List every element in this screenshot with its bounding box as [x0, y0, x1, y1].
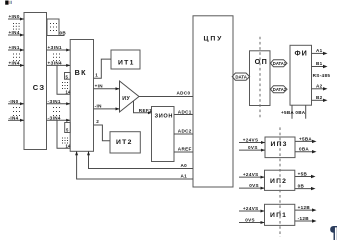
svg-text:-12В: -12В [298, 216, 310, 221]
wire A2 output [312, 83, 328, 90]
wire -IN4 input [8, 115, 24, 122]
wire -IN0 input [8, 99, 24, 106]
wire +ZIN1 [47, 45, 71, 52]
wire +5VA output IP3 [295, 136, 317, 143]
svg-text:0В: 0В [298, 184, 305, 189]
svg-text:A0: A0 [181, 163, 188, 168]
svg-text:+ЗIN1: +ЗIN1 [48, 45, 63, 50]
bus DATA1 OP-FI [271, 60, 288, 67]
dots group 2 [13, 54, 20, 62]
svg-text:+IN0: +IN0 [9, 14, 20, 19]
svg-text:+5ВА: +5ВА [299, 136, 312, 141]
svg-text:СЗ: СЗ [33, 83, 45, 92]
svg-text:DATA2: DATA2 [273, 87, 287, 92]
block ZION (voltage reference) [152, 107, 175, 162]
block IP1 (power supply 1) [265, 204, 295, 225]
block CPU (processor) [193, 16, 233, 187]
svg-text:2: 2 [96, 119, 99, 124]
block C3 (input protection) [24, 13, 47, 150]
wire -ZIN1 [47, 99, 71, 106]
svg-text:ИТ2: ИТ2 [116, 139, 133, 146]
wire AREF [174, 146, 193, 152]
svg-text:A1: A1 [181, 173, 188, 178]
svg-text:REF1: REF1 [139, 108, 152, 113]
svg-text:0В: 0В [60, 31, 67, 36]
wire B1 output [312, 61, 328, 68]
svg-text:ОП: ОП [255, 57, 269, 66]
wire ADC1 [174, 109, 193, 114]
page anchor mark top-left [5, 1, 12, 5]
dots group 1 [13, 23, 20, 30]
svg-text:DATA: DATA [235, 75, 247, 80]
svg-text:0VS: 0VS [245, 217, 255, 222]
svg-text:0ВА: 0ВА [299, 147, 309, 152]
wire ADC0 from amplifier to CPU [139, 90, 193, 96]
wire 0VS input IP1 [239, 217, 265, 224]
bus DATA CPU-OP [232, 73, 249, 80]
label bundle 2 end [66, 144, 71, 149]
svg-text:0VS: 0VS [249, 183, 259, 188]
wire A0 from BK to CPU [87, 151, 193, 168]
op-amp IU (instrumentation amplifier triangle) [120, 81, 140, 112]
svg-text:+24VS: +24VS [243, 138, 259, 143]
wire bundle 1 tail [57, 65, 70, 94]
wire +IN to amplifier [94, 83, 120, 90]
wire ADC2 [174, 128, 193, 134]
node 0V bundle box [47, 19, 59, 36]
svg-text:A2: A2 [316, 83, 323, 88]
svg-text:ВК: ВК [75, 68, 87, 77]
wire +24VS input IP2 [239, 172, 265, 179]
wire B2 output [312, 95, 328, 102]
wire 0VA stub under FI [295, 105, 305, 119]
svg-text:0ВА: 0ВА [295, 110, 305, 115]
svg-text:ИП2: ИП2 [270, 178, 287, 185]
svg-text:DATA1: DATA1 [273, 61, 287, 66]
svg-text:-IN: -IN [95, 104, 103, 109]
svg-text:AREF: AREF [178, 146, 192, 151]
wire +IN4 input [8, 30, 24, 37]
svg-text:+IN1: +IN1 [9, 45, 20, 50]
dots group 3 [13, 107, 20, 116]
pilcrow mark bottom-right [330, 224, 337, 240]
svg-text:ИТ1: ИТ1 [118, 59, 135, 66]
wire +5V output IP2 [295, 171, 316, 178]
svg-text:0VS: 0VS [248, 145, 258, 150]
svg-text:+ЗIN4: +ЗIN4 [48, 60, 63, 65]
isolation dashed line upper [259, 37, 261, 119]
wire 0V stub [59, 31, 66, 36]
svg-text:-ЗIN4: -ЗIN4 [48, 115, 61, 120]
svg-text:14: 14 [66, 89, 71, 94]
label RS-485 [313, 73, 331, 78]
wire +IN1 input [8, 45, 24, 52]
wire A1 from BK to CPU [75, 151, 193, 179]
wire +ZIN4 [47, 60, 71, 67]
svg-text:ФИ: ФИ [295, 48, 308, 57]
svg-text:¶: ¶ [330, 224, 337, 240]
svg-text:ЦПУ: ЦПУ [204, 35, 224, 42]
svg-text:+IN: +IN [95, 83, 104, 88]
svg-text:ADC1: ADC1 [178, 109, 192, 114]
svg-text:+12В: +12В [298, 205, 311, 210]
block IT2 (current source 2) [110, 132, 140, 153]
wire A1 output [312, 48, 328, 55]
block BK (input switch) [70, 40, 93, 152]
svg-text:ADC2: ADC2 [178, 128, 192, 133]
wire 0VA output IP3 [295, 147, 317, 154]
svg-text:ЗИОН: ЗИОН [155, 114, 174, 120]
svg-text:ИУ: ИУ [122, 96, 130, 102]
svg-text:+5ВА: +5ВА [281, 110, 294, 115]
node bundle 2 box [65, 123, 71, 133]
wire +24VS input IP3 [239, 138, 265, 144]
svg-text:+24VS: +24VS [243, 206, 259, 211]
svg-text:+IN4: +IN4 [9, 60, 20, 65]
wire +24VS input IP1 [239, 206, 265, 213]
dots bundle 1 [62, 82, 68, 89]
svg-text:+IN4: +IN4 [9, 30, 20, 35]
svg-text:1: 1 [95, 73, 98, 78]
wire -12V output IP1 [295, 216, 317, 223]
svg-text:-IN0: -IN0 [9, 99, 19, 104]
wire 0VS input IP3 [239, 145, 265, 151]
svg-text:14: 14 [66, 144, 71, 149]
wire +12V output IP1 [295, 205, 317, 212]
svg-text:B1: B1 [316, 61, 323, 66]
dots bundle 2 [62, 138, 68, 144]
svg-text:-ЗIN1: -ЗIN1 [48, 99, 61, 104]
wire bundle 2 tail [57, 120, 70, 148]
svg-text:ИП1: ИП1 [270, 212, 287, 219]
svg-text:-IN4: -IN4 [9, 115, 19, 120]
wire +5VA stub under FI [281, 105, 294, 119]
svg-text:+24VS: +24VS [243, 172, 259, 177]
wire 0VS input IP2 [239, 183, 265, 190]
svg-text:B2: B2 [316, 95, 323, 100]
block IT1 (current source 1) [111, 50, 140, 69]
label bundle 1 end [66, 89, 71, 94]
block IP2 (power supply 2) [265, 170, 295, 190]
wire 0V output IP2 [295, 184, 316, 191]
svg-text:ИП3: ИП3 [271, 141, 288, 148]
bus DATA2 OP-FI [271, 86, 288, 93]
isolation dashed line lower [279, 127, 281, 236]
svg-text:+5В: +5В [298, 171, 308, 176]
block IP3 (power supply 3) [265, 137, 295, 158]
dots group middle 2 [53, 107, 60, 116]
wire -ZIN4 [47, 115, 71, 122]
svg-text:RS-485: RS-485 [313, 73, 331, 78]
block OP (optocoupler isolation) [250, 51, 271, 106]
dots group middle 1 [53, 54, 60, 62]
wire REF1 [134, 101, 153, 114]
wire -IN to amplifier [94, 104, 120, 111]
svg-text:A1: A1 [316, 48, 323, 53]
node bundle 1 box [65, 73, 71, 80]
wire BK pin 1 to IT1 [94, 59, 112, 78]
wire +IN0 input [8, 14, 24, 21]
wire BK pin 2 to IT2 [94, 119, 111, 141]
wire +IN4 input lower [8, 60, 24, 67]
svg-text:ADC0: ADC0 [177, 90, 191, 95]
block FI (interface driver) [290, 45, 312, 105]
